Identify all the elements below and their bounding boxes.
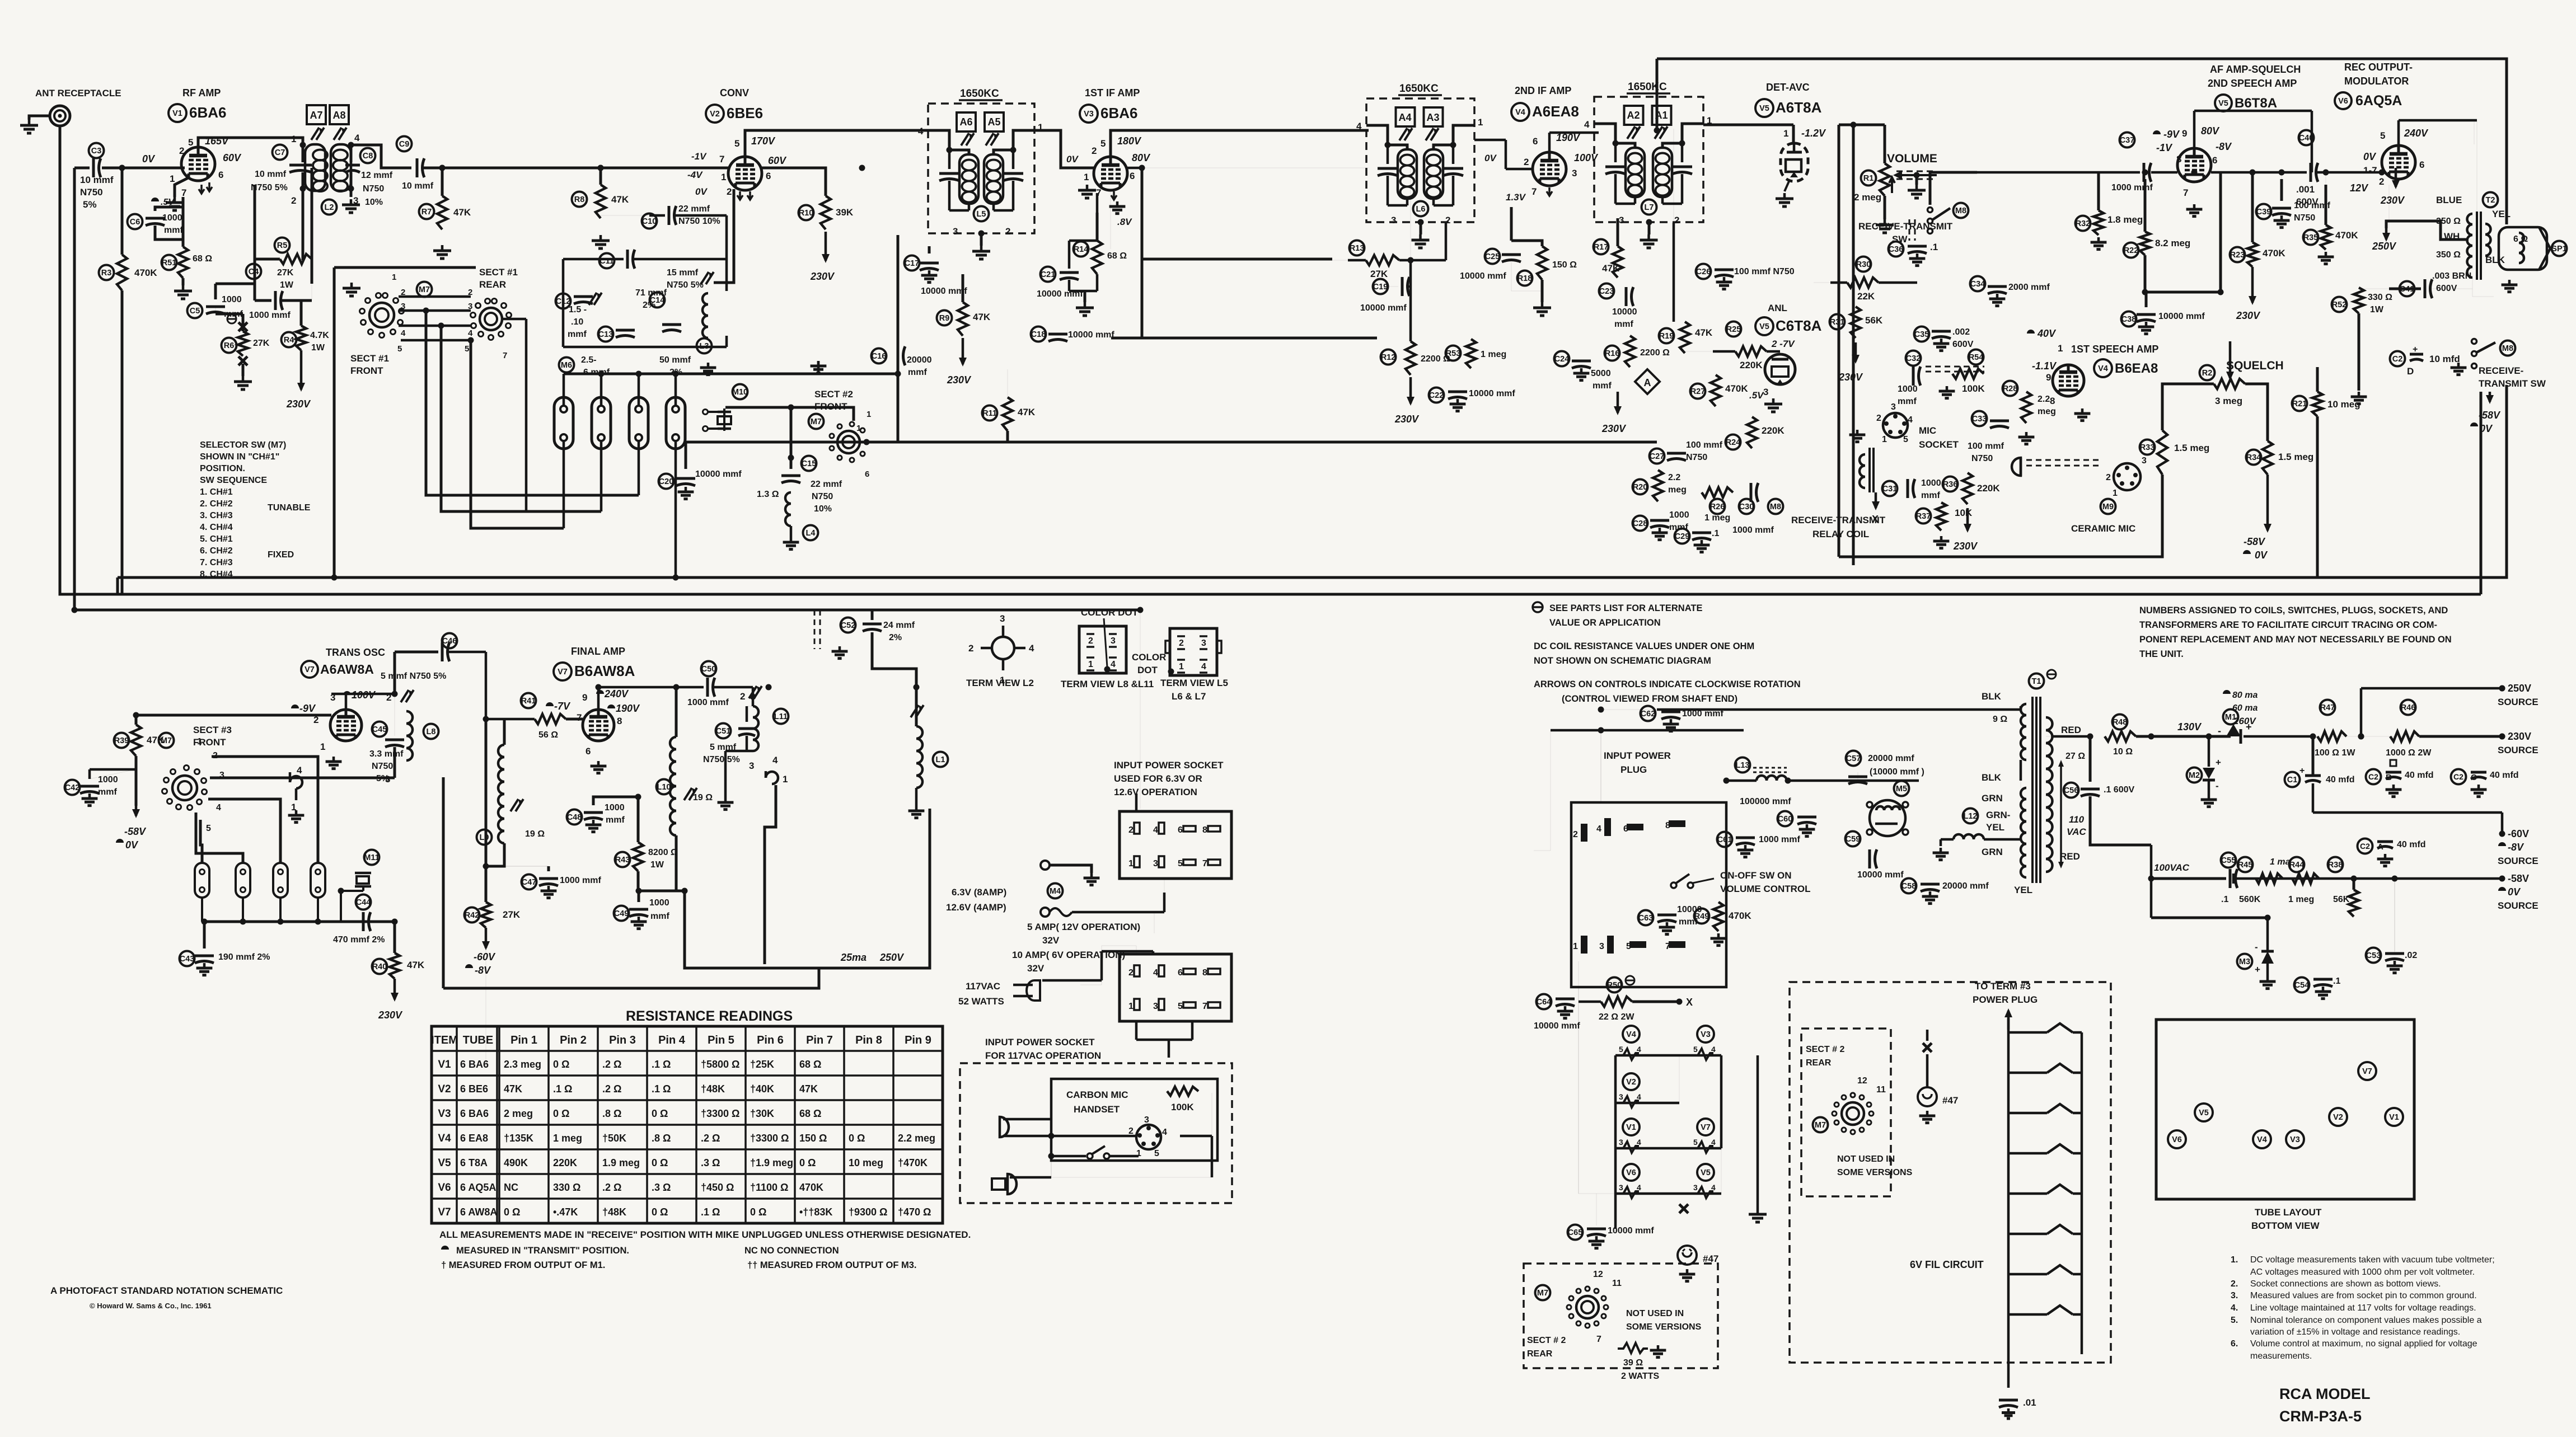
svg-text:C47: C47 xyxy=(522,878,537,887)
wire final box left xyxy=(442,777,445,988)
tube V5 AF 6T8A xyxy=(2177,148,2211,182)
svg-text:M9: M9 xyxy=(2102,503,2114,511)
resistor R51 xyxy=(178,247,188,278)
wire m1 conn xyxy=(2244,735,2312,738)
svg-text:5 AMP( 12V OPERATION): 5 AMP( 12V OPERATION) xyxy=(1027,922,1140,932)
voltage 230V R4 xyxy=(286,398,311,410)
svg-text:R18: R18 xyxy=(1518,274,1533,283)
ground V3 heater xyxy=(1109,201,1126,214)
svg-text:R52: R52 xyxy=(2332,300,2347,309)
svg-text:M2: M2 xyxy=(2189,771,2200,780)
label RT SW2 b xyxy=(2479,378,2546,389)
ground L7 xyxy=(1640,234,1658,248)
svg-text:POWER PLUG: POWER PLUG xyxy=(1973,994,2038,1005)
svg-text:V6: V6 xyxy=(2172,1135,2182,1144)
svg-text:Pin 5: Pin 5 xyxy=(708,1034,734,1046)
svg-text:B6AW8A: B6AW8A xyxy=(574,663,635,679)
svg-text:R7: R7 xyxy=(421,208,432,217)
svg-text:1000: 1000 xyxy=(98,775,118,785)
part L2 label xyxy=(322,200,337,215)
svg-text:330 Ω: 330 Ω xyxy=(2368,293,2392,302)
value R31 xyxy=(1865,315,1883,326)
svg-text:1: 1 xyxy=(1088,660,1093,669)
pin2 v7a xyxy=(313,715,319,725)
footnote 7 xyxy=(2250,1339,2477,1349)
label X r50 xyxy=(1686,997,1693,1008)
part M7 label xyxy=(159,733,174,748)
svg-text:DC COIL RESISTANCE VALUES: DC COIL RESISTANCE VALUES UNDER ONE OHM xyxy=(1534,641,1754,651)
resistor R16 label xyxy=(1605,346,1620,361)
svg-text:V2: V2 xyxy=(438,1083,451,1095)
svg-text:C2: C2 xyxy=(2392,355,2403,364)
wire C52 col xyxy=(871,610,874,620)
terminal box A1 xyxy=(1652,106,1671,125)
capacitor C59 xyxy=(1870,849,1877,868)
wire avc stub2 xyxy=(1111,337,1377,340)
capacitor C20 xyxy=(676,478,695,486)
svg-text:32V: 32V xyxy=(1027,963,1045,974)
value C35 a xyxy=(1952,327,1970,337)
wire sect3 w6 xyxy=(196,813,243,863)
pin3 L11 xyxy=(749,760,754,771)
svg-text:RECEIVE-: RECEIVE- xyxy=(2479,365,2523,376)
svg-text:5: 5 xyxy=(397,344,402,354)
table row V7 xyxy=(438,1206,931,1218)
label sect2m a xyxy=(1806,1045,1844,1054)
svg-text:M7: M7 xyxy=(1815,1121,1826,1130)
table row V4 xyxy=(438,1133,935,1144)
ground R6 xyxy=(234,376,252,389)
wire red col xyxy=(2089,736,2092,782)
svg-text:10000 mmf: 10000 mmf xyxy=(1037,289,1083,299)
table header row xyxy=(431,1034,931,1046)
pin1 v7a xyxy=(320,741,325,752)
part V6 label xyxy=(1623,1164,1640,1181)
tdot v7a xyxy=(343,691,351,695)
V4 heater arrow xyxy=(1547,187,1552,196)
value R6 xyxy=(253,339,270,348)
wire L6 gnd stub xyxy=(1420,222,1422,234)
capacitor C6 xyxy=(146,218,165,226)
svg-text:R54: R54 xyxy=(1969,353,1984,362)
capacitor fil .01 xyxy=(1999,1400,2018,1407)
svg-text:2.2: 2.2 xyxy=(1668,473,1680,482)
wire BLK bot xyxy=(2020,760,2021,788)
capacitor C18 xyxy=(1048,334,1067,341)
resistor R13 xyxy=(1366,255,1399,265)
arrow R23 230V xyxy=(2249,267,2256,305)
wire T2 pri bot xyxy=(2472,278,2494,297)
value C8 a xyxy=(361,171,393,180)
ground R37 xyxy=(1933,536,1950,548)
IF transformer L7 dashed box xyxy=(1594,97,1703,222)
svg-text:40 mfd: 40 mfd xyxy=(2397,840,2426,849)
wire R13 row xyxy=(1332,260,1366,261)
capacitor C3 label xyxy=(89,143,104,158)
terminal box A6 xyxy=(957,112,976,132)
svg-text:CONV: CONV xyxy=(720,87,749,98)
wire V3 out xyxy=(1126,167,1142,170)
wire C51 col xyxy=(747,706,753,751)
capacitor C10 label xyxy=(642,214,657,229)
wire C8 bot xyxy=(350,172,353,197)
svg-text:2.2: 2.2 xyxy=(2038,395,2050,404)
svg-text:5: 5 xyxy=(734,138,739,149)
svg-text:C61: C61 xyxy=(1717,835,1732,844)
svg-text:100K: 100K xyxy=(1962,383,1985,394)
terminal circle b xyxy=(1041,908,1050,917)
part V2 label xyxy=(706,105,724,123)
ground L6 xyxy=(1412,234,1430,248)
slug L7 b xyxy=(1655,126,1668,139)
wire C43 col xyxy=(203,922,206,948)
svg-text:C5: C5 xyxy=(190,307,200,316)
wire sect2 top xyxy=(725,407,854,421)
value R25 xyxy=(1740,360,1763,370)
pin1 L9 xyxy=(291,802,296,813)
lamp 47 left xyxy=(1678,1246,1697,1265)
svg-text:10000 mmf: 10000 mmf xyxy=(1857,870,1904,880)
wire v6 cath xyxy=(2388,185,2390,241)
resistor R20 label xyxy=(1633,480,1648,495)
capacitor C47 label xyxy=(522,875,537,890)
svg-text:.5V: .5V xyxy=(1749,390,1764,401)
svg-text:ITEM: ITEM xyxy=(431,1034,458,1046)
svg-text:1: 1 xyxy=(1783,128,1788,139)
label BLUE xyxy=(2436,195,2462,205)
value R20 a xyxy=(1668,473,1680,482)
slug L10 xyxy=(684,788,697,800)
wire V3 cath xyxy=(1096,193,1099,213)
capacitor C7 xyxy=(289,165,312,172)
svg-text:C37: C37 xyxy=(2120,136,2135,145)
svg-text:4: 4 xyxy=(1711,1183,1716,1192)
fil resistor V7 xyxy=(1690,1138,1716,1153)
line under 1650KC L5 xyxy=(959,99,1003,101)
sect3 pin2 xyxy=(213,751,218,760)
value 9ohm xyxy=(1993,715,2007,724)
pin1 L2 xyxy=(291,134,296,144)
selector text 7 xyxy=(200,523,233,532)
value C51 a xyxy=(710,743,737,752)
junction R8 top xyxy=(598,165,604,171)
resistor R7 label xyxy=(419,204,434,219)
label TERM VIEW L5 xyxy=(1160,678,1228,688)
ground C48 xyxy=(586,820,602,832)
capacitor C24 label xyxy=(1554,351,1570,367)
voltage 165V xyxy=(205,135,230,147)
part V3 label xyxy=(1697,1026,1714,1042)
capacitor C25 label xyxy=(1485,249,1500,264)
part L5 label xyxy=(974,206,989,222)
wire m2 conn xyxy=(2208,736,2210,795)
svg-text:2%: 2% xyxy=(889,633,902,642)
svg-text:R38: R38 xyxy=(2328,861,2343,870)
resistor R4 label xyxy=(282,332,297,347)
svg-text:A5: A5 xyxy=(987,116,1000,128)
value C30 xyxy=(1732,525,1774,535)
value R37 xyxy=(1955,508,1973,518)
junction dots main bus xyxy=(72,165,2505,925)
svg-text:-9V: -9V xyxy=(299,703,316,714)
resistor R48 label xyxy=(2113,715,2128,730)
value C45 c xyxy=(376,774,389,783)
svg-text:ANL: ANL xyxy=(1768,303,1787,313)
svg-text:1000: 1000 xyxy=(222,295,242,304)
svg-text:R33: R33 xyxy=(2140,443,2155,452)
value R45 xyxy=(2239,895,2261,904)
junction L5 b xyxy=(1010,147,1017,153)
tube V3 6BA6 xyxy=(1094,157,1127,190)
wire L10 bot xyxy=(675,835,678,891)
pin2 L8 xyxy=(386,692,391,703)
svg-text:12V: 12V xyxy=(2350,182,2369,194)
label 230V SOURCE b xyxy=(2498,745,2538,755)
svg-text:32V: 32V xyxy=(1042,935,1060,946)
resistor R42 xyxy=(481,902,491,928)
svg-text:6: 6 xyxy=(1533,136,1538,147)
ground L3 xyxy=(700,363,716,375)
wire fil conn a xyxy=(1615,1194,1616,1232)
capacitor C27 xyxy=(1667,453,1686,461)
svg-text:L10: L10 xyxy=(657,783,671,792)
svg-text:R1: R1 xyxy=(1863,174,1874,183)
svg-text:6AQ5A: 6AQ5A xyxy=(2355,93,2402,109)
svg-text:2 meg: 2 meg xyxy=(1854,192,1881,203)
capacitor C42 xyxy=(80,786,99,793)
svg-text:11: 11 xyxy=(1876,1085,1886,1095)
ground L5 xyxy=(972,246,990,259)
wire C4 row xyxy=(255,299,271,302)
pin2 V1 xyxy=(179,145,184,156)
ground R18 xyxy=(1533,302,1551,316)
svg-text:C55: C55 xyxy=(2221,856,2236,865)
part M3 label xyxy=(2237,954,2252,969)
svg-text:150 Ω: 150 Ω xyxy=(799,1133,827,1144)
wire AVC drop xyxy=(1656,59,1659,130)
label INPUT POWER b xyxy=(1620,764,1647,775)
svg-text:C36: C36 xyxy=(1889,245,1904,254)
handset pin3 xyxy=(1144,1115,1149,1125)
wire L7 gnd stub xyxy=(1648,222,1651,234)
svg-text:SOURCE: SOURCE xyxy=(2498,745,2538,755)
term L2 pin1 xyxy=(1000,675,1005,685)
sw pin2a xyxy=(401,288,405,297)
value C51 b xyxy=(703,755,740,764)
sw pin4b xyxy=(468,328,473,338)
svg-text:1: 1 xyxy=(867,410,871,419)
pin3 L7 xyxy=(1619,215,1624,226)
coil L2 secondary xyxy=(331,144,351,191)
value C8 b xyxy=(363,184,384,194)
svg-text:.1: .1 xyxy=(2221,895,2228,904)
arrow R31 230V xyxy=(1852,342,1860,364)
wire 250v conn xyxy=(2361,688,2502,736)
svg-text:12.6V OPERATION: 12.6V OPERATION xyxy=(1114,787,1197,797)
svg-text:.001: .001 xyxy=(2296,184,2315,195)
svg-text:0 Ω: 0 Ω xyxy=(799,1157,816,1168)
wire R6 bot xyxy=(242,364,245,376)
svg-text:R12: R12 xyxy=(1381,353,1396,362)
svg-text:6: 6 xyxy=(766,171,771,181)
voltage 250V xyxy=(2372,241,2397,252)
svg-text:mmf: mmf xyxy=(1593,381,1612,391)
label TRANS OSC xyxy=(326,647,385,658)
svg-text:C51: C51 xyxy=(716,727,731,736)
selector text 10 xyxy=(200,558,233,567)
svg-text:NUMBERS ASSIGNED TO COILS, SWI: NUMBERS ASSIGNED TO COILS, SWITCHES, PLU… xyxy=(2139,605,2448,616)
svg-text:V1: V1 xyxy=(438,1059,451,1070)
ground C42 xyxy=(82,793,98,806)
ground antenna xyxy=(20,120,38,133)
part M7 label xyxy=(809,414,824,429)
terminal box A2 xyxy=(1624,106,1643,125)
svg-text:R28: R28 xyxy=(2003,384,2018,393)
svg-text:RF AMP: RF AMP xyxy=(182,87,221,98)
label 5amp xyxy=(1027,922,1140,932)
svg-text:AF AMP-SQUELCH: AF AMP-SQUELCH xyxy=(2210,64,2301,75)
svg-text:•.47K: •.47K xyxy=(553,1206,578,1218)
label RED1 xyxy=(2061,725,2081,735)
svg-text:VAC: VAC xyxy=(2067,826,2086,837)
svg-text:N750 5%: N750 5% xyxy=(703,755,740,764)
capacitor C31 xyxy=(1908,479,1915,498)
capacitor C22 label xyxy=(1429,388,1444,403)
ground L4 xyxy=(783,537,799,550)
svg-text:X: X xyxy=(1686,997,1693,1008)
svg-text:REC OUTPUT-: REC OUTPUT- xyxy=(2344,62,2413,73)
terminal box A7 xyxy=(307,105,326,124)
svg-text:5: 5 xyxy=(206,824,211,833)
svg-text:C3: C3 xyxy=(91,147,102,156)
resistor R25 xyxy=(1735,346,1767,356)
svg-text:0 Ω: 0 Ω xyxy=(553,1059,569,1070)
svg-text:6: 6 xyxy=(218,170,223,180)
svg-text:C33: C33 xyxy=(1972,415,1987,424)
svg-text:R44: R44 xyxy=(2289,861,2305,870)
wire lamp conn xyxy=(1926,1030,1929,1087)
svg-text:240V: 240V xyxy=(2404,128,2429,139)
svg-text:2000 mmf: 2000 mmf xyxy=(2008,283,2050,292)
svg-text:FRONT: FRONT xyxy=(350,365,383,376)
wire C57 lead xyxy=(1857,772,1858,781)
svg-text:4: 4 xyxy=(1711,1138,1716,1147)
term view L8 box xyxy=(1079,626,1126,673)
value R47 xyxy=(2315,748,2355,758)
svg-text:R23: R23 xyxy=(2230,251,2245,260)
resistor R38 xyxy=(2349,890,2359,917)
wire AF box left xyxy=(1838,125,1840,557)
rca model a xyxy=(2279,1386,2371,1402)
svg-text:•††83K: •††83K xyxy=(799,1206,832,1218)
ground M8 xyxy=(2451,363,2467,375)
label SECT1 FRONT b xyxy=(350,365,383,376)
svg-text:†† MEASURED FROM OUTPUT OF: †† MEASURED FROM OUTPUT OF M3. xyxy=(747,1260,917,1270)
value R49 xyxy=(1729,910,1751,921)
slug L6 a xyxy=(1399,128,1412,140)
svg-text:-1.2V: -1.2V xyxy=(1801,128,1826,139)
handset pin1 xyxy=(1136,1149,1141,1158)
ground C28 xyxy=(1652,528,1668,540)
svg-text:B6EA8: B6EA8 xyxy=(2115,361,2158,376)
ground V1 cathode xyxy=(166,197,184,210)
value C63 b xyxy=(1679,917,1698,927)
value R4 1W xyxy=(311,343,325,353)
capacitor C61 label xyxy=(1717,832,1732,847)
svg-text:0V: 0V xyxy=(125,839,139,851)
ground fil left xyxy=(1749,1209,1767,1222)
svg-text:1000: 1000 xyxy=(1669,510,1689,520)
value R52 a xyxy=(2368,293,2392,302)
svg-text:5: 5 xyxy=(1100,138,1106,149)
line under 1650KC L7 xyxy=(1627,92,1670,95)
capacitor C54 label xyxy=(2294,978,2310,993)
junction sel bus xyxy=(598,371,901,377)
wire R7 drop xyxy=(441,168,444,196)
value C62 xyxy=(1682,709,1723,718)
capacitor C15 label xyxy=(802,456,817,471)
label RED2 xyxy=(2060,851,2080,862)
svg-text:1: 1 xyxy=(1882,435,1887,444)
lamp 47 mid xyxy=(1918,1087,1937,1106)
svg-text:C38: C38 xyxy=(2121,315,2137,324)
part V1 label xyxy=(1623,1119,1640,1135)
svg-text:R10: R10 xyxy=(799,209,814,218)
svg-text:5: 5 xyxy=(1693,1138,1698,1147)
voltage -8V af xyxy=(2216,141,2232,152)
value R1 xyxy=(1854,192,1881,203)
wire plug conn xyxy=(1551,730,1744,802)
svg-text:A3: A3 xyxy=(1426,112,1439,123)
value C8 c xyxy=(365,198,383,207)
sw pin3b xyxy=(468,302,472,311)
svg-text:2: 2 xyxy=(401,288,405,297)
svg-text:C30: C30 xyxy=(1739,503,1754,511)
svg-text:4.: 4. xyxy=(2231,1303,2238,1313)
label 12.6V amp xyxy=(946,902,1006,913)
wire C7 bot xyxy=(302,172,305,260)
note dc coil a xyxy=(1534,641,1754,651)
svg-text:R31: R31 xyxy=(1830,318,1845,327)
label SECT3 a xyxy=(193,725,232,735)
wire down to R3 xyxy=(121,168,124,255)
svg-text:3: 3 xyxy=(1619,1092,1623,1101)
svg-text:1W: 1W xyxy=(280,280,294,290)
svg-text:6 BA6: 6 BA6 xyxy=(460,1059,489,1070)
wire sect1 right xyxy=(502,319,526,511)
wire R3 to rail xyxy=(121,290,124,594)
junction sect2 xyxy=(788,405,794,461)
wire r50 right xyxy=(1632,1001,1679,1003)
svg-text:5 mmf N750 5%: 5 mmf N750 5% xyxy=(381,671,446,681)
svg-text:YEL: YEL xyxy=(2014,885,2032,895)
svg-text:68 Ω: 68 Ω xyxy=(1107,251,1127,261)
svg-text:C48: C48 xyxy=(567,813,582,822)
label -58V src xyxy=(2508,873,2529,884)
ground C65 xyxy=(1589,1236,1605,1248)
xmark R6 top xyxy=(238,322,247,331)
svg-text:6.3V (8AMP): 6.3V (8AMP) xyxy=(952,887,1006,898)
svg-text:0V: 0V xyxy=(1066,154,1079,165)
voltage 0V osc xyxy=(125,839,139,851)
ground C2A xyxy=(2377,854,2394,866)
resistor R26 xyxy=(1702,487,1733,497)
ground lamp left xyxy=(1679,1269,1696,1281)
svg-text:180V: 180V xyxy=(1117,135,1142,147)
part M11 label xyxy=(364,850,379,865)
resistor R11 xyxy=(1003,397,1013,431)
capacitor C3 xyxy=(93,158,101,177)
